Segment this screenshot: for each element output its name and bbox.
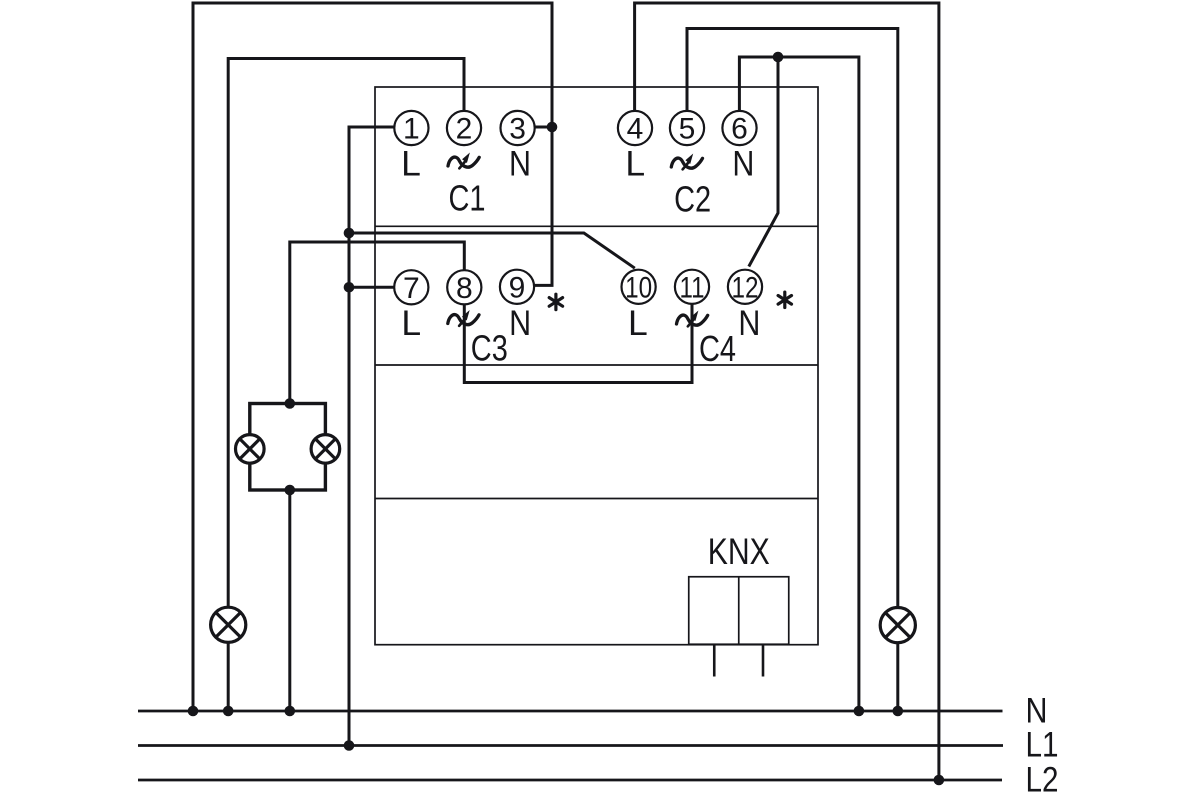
junction node L1 bus x349 <box>344 740 355 751</box>
device box outline <box>375 87 818 645</box>
svg-text:12: 12 <box>732 271 759 304</box>
svg-text:7: 7 <box>403 272 420 305</box>
svg-text:6: 6 <box>731 113 748 146</box>
lamp E1 left <box>211 607 246 642</box>
svg-text:C1: C1 <box>449 177 486 218</box>
svg-text:2: 2 <box>456 113 473 146</box>
svg-text:L1: L1 <box>1026 725 1059 765</box>
terminal 1 <box>394 111 428 145</box>
wire: N bus riser right side to terminal 6 <box>739 57 859 711</box>
bus labels <box>1026 691 1059 800</box>
wire: L2 bus riser up and over to terminal 4 <box>635 3 939 780</box>
device box divider 1 <box>375 225 818 227</box>
wire: L1 bus riser to terminal 1 <box>349 127 394 746</box>
svg-text:KNX: KNX <box>708 531 770 572</box>
junction node L1 riser / terminal 7 stub <box>344 282 355 293</box>
terminal 11 <box>675 270 709 304</box>
KNX pin 1 <box>713 645 716 677</box>
junction node L1 riser / terminal 10 branch <box>344 228 355 239</box>
junction node terminal3/N riser <box>547 122 558 133</box>
channel labels <box>449 177 737 369</box>
terminal 8 <box>447 270 481 304</box>
wire: node to terminal 10 <box>349 233 635 268</box>
wire: stub terminal 3 to N riser <box>535 126 554 129</box>
svg-text:L: L <box>401 303 421 343</box>
junction node N bus x898 <box>893 706 904 717</box>
terminal function labels <box>401 143 760 343</box>
junction node lamp pair top <box>285 398 296 409</box>
terminal 10 <box>622 270 656 304</box>
lamp E2 right <box>880 608 915 643</box>
terminal 6 <box>722 111 756 145</box>
junction node terminal 6/12 branch <box>773 52 784 63</box>
dim symbol terminal 5 <box>671 154 702 170</box>
lamp pair bracket <box>250 404 326 491</box>
bus L1 <box>138 744 1003 747</box>
wire: terminal 5 up over and down to lamp E2 <box>687 29 898 608</box>
KNX pin 2 <box>762 645 765 677</box>
svg-text:3: 3 <box>509 113 526 146</box>
wire: lamp E1 to N bus <box>227 643 230 711</box>
svg-text:4: 4 <box>627 113 644 146</box>
junction node L2 bus x939 <box>934 775 945 786</box>
junction node N bus x193 <box>188 706 199 717</box>
wire: lamp pair to terminal 8 <box>290 242 465 404</box>
dim symbol terminal 8 <box>448 310 479 326</box>
asterisk for terminal 12 <box>778 292 791 307</box>
svg-text:N: N <box>509 143 531 183</box>
svg-text:N: N <box>738 303 760 343</box>
terminal 9 <box>500 270 534 304</box>
svg-text:10: 10 <box>625 271 652 304</box>
wire: lamp E2 to N bus <box>896 643 899 711</box>
wire: stub to terminal 7 <box>349 286 394 289</box>
svg-text:8: 8 <box>456 272 473 305</box>
asterisk for terminal 9 <box>549 294 562 309</box>
wire: branch to terminal 12 <box>749 57 778 267</box>
svg-text:L2: L2 <box>1026 760 1059 800</box>
terminal 2 <box>447 111 481 145</box>
svg-text:L: L <box>401 144 421 184</box>
wire: lamp pair to N bus <box>288 490 291 711</box>
lamp E3 pair left <box>236 435 265 464</box>
svg-text:L: L <box>628 303 648 343</box>
terminal numbers <box>403 113 759 305</box>
svg-text:C4: C4 <box>699 328 736 369</box>
terminal 3 <box>500 111 534 145</box>
bus N <box>138 710 1003 713</box>
svg-text:9: 9 <box>509 271 526 304</box>
svg-text:L: L <box>625 144 645 184</box>
device box divider 3 <box>375 498 818 500</box>
junction node N bus x290 <box>285 706 296 717</box>
dim symbol terminal 11 <box>677 311 708 327</box>
svg-text:N: N <box>509 303 531 343</box>
wire: N bus up left side to terminals 3 and 9 <box>193 3 552 711</box>
svg-text:C2: C2 <box>674 178 711 219</box>
bus L2 <box>138 779 1002 782</box>
svg-text:C3: C3 <box>471 327 508 368</box>
wire: terminal 2 up over and down to lamp E1 <box>228 59 464 608</box>
terminal 5 <box>670 111 704 145</box>
junction node N bus x859 <box>854 706 865 717</box>
svg-text:5: 5 <box>679 113 696 146</box>
svg-text:N: N <box>732 143 754 183</box>
terminal 4 <box>618 111 652 145</box>
svg-text:11: 11 <box>680 271 705 304</box>
svg-text:1: 1 <box>403 113 420 146</box>
KNX connector block <box>689 577 789 645</box>
dim symbol terminal 2 <box>448 153 479 169</box>
device box divider 2 <box>375 364 818 366</box>
junction node N bus x228 <box>223 706 234 717</box>
wire: terminal 8 to terminal 11 parallel link <box>464 304 692 382</box>
terminal 12 <box>728 270 762 304</box>
junction node lamp pair bottom <box>285 485 296 496</box>
lamp E4 pair right <box>311 435 340 464</box>
terminal 7 <box>394 270 428 304</box>
